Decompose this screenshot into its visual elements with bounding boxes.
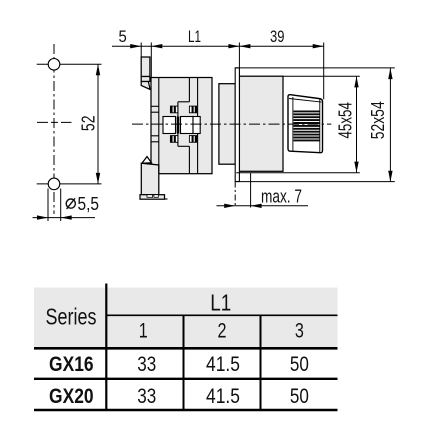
svg-text:33: 33 <box>137 352 156 376</box>
svg-text:33: 33 <box>137 384 156 408</box>
svg-text:45x54: 45x54 <box>335 102 355 139</box>
svg-text:5,5: 5,5 <box>78 194 100 214</box>
svg-text:GX20: GX20 <box>49 384 94 408</box>
svg-text:1: 1 <box>139 318 148 342</box>
svg-text:52x54: 52x54 <box>368 101 388 139</box>
svg-text:50: 50 <box>290 384 309 408</box>
svg-text:2: 2 <box>218 318 227 342</box>
svg-text:41.5: 41.5 <box>206 384 240 408</box>
svg-text:41.5: 41.5 <box>206 352 240 376</box>
svg-text:L1: L1 <box>188 27 201 46</box>
svg-text:GX16: GX16 <box>49 352 94 376</box>
svg-text:5: 5 <box>118 27 126 46</box>
svg-text:max. 7: max. 7 <box>261 186 302 206</box>
svg-text:3: 3 <box>295 318 304 342</box>
svg-text:39: 39 <box>270 27 285 46</box>
svg-text:52: 52 <box>78 116 98 132</box>
svg-text:50: 50 <box>290 352 309 376</box>
svg-text:Series: Series <box>46 303 97 329</box>
svg-text:L1: L1 <box>210 290 231 316</box>
